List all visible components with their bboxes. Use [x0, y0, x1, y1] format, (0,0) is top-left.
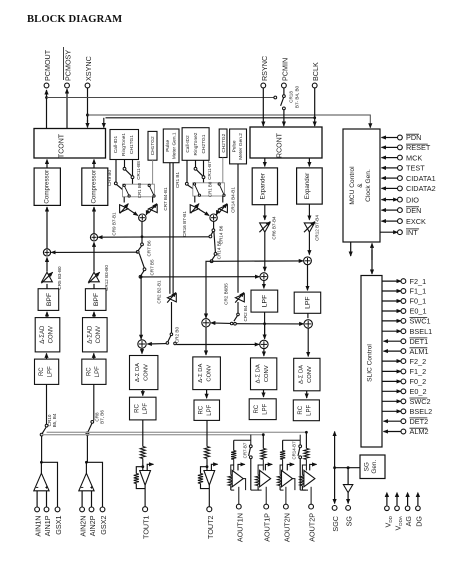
svg-text:AIN2N: AIN2N	[79, 516, 88, 537]
svg-text:CH2TG1: CH2TG1	[201, 134, 207, 153]
wire vga CR5 to S1	[46, 258, 48, 272]
wire CH2TG2 down	[222, 158, 224, 183]
pin MCK	[382, 153, 423, 162]
wire AIN1N	[36, 491, 38, 507]
wire to T1 sum	[147, 343, 166, 345]
resistor TOUT1	[140, 447, 145, 459]
svg-text:B7- B4, B0: B7- B4, B0	[295, 85, 300, 108]
pin CIDATA1	[382, 174, 436, 183]
svg-text:CR14 B5: CR14 B5	[217, 240, 222, 259]
wire ch2 to TOUT2 sum	[206, 261, 212, 318]
svg-text:AIN2P: AIN2P	[88, 515, 97, 536]
svg-text:Δ-Σ DA: Δ-Σ DA	[198, 364, 204, 383]
svg-text:AOUT2N: AOUT2N	[282, 513, 291, 542]
resistor TOUT2	[204, 447, 209, 459]
pin PCMOUT	[43, 49, 52, 88]
switch CR7 B5	[139, 253, 154, 278]
wire LPF1 down	[263, 312, 266, 338]
wire ADC2 to BPF2	[93, 312, 95, 318]
pin DEN	[382, 206, 422, 215]
pin E0_2	[382, 387, 427, 396]
wire pulse1 feed a	[169, 163, 171, 294]
svg-text:AG: AG	[404, 516, 413, 527]
wire RCLPF2 down to switch	[93, 384, 95, 420]
wire resistor to amp TOUT2	[206, 459, 209, 471]
svg-text:Gen.: Gen.	[371, 460, 378, 474]
block DA CONV T1	[130, 356, 158, 390]
pin PCMOSY	[64, 47, 73, 88]
svg-text:MCU Control: MCU Control	[349, 166, 356, 205]
svg-text:XSYNC: XSYNC	[84, 56, 93, 81]
svg-text:CR2 B4: CR2 B4	[243, 305, 248, 322]
block SLIC Control	[361, 276, 382, 448]
svg-text:TOUT1: TOUT1	[142, 516, 151, 539]
block LPF 2	[294, 292, 321, 313]
block RC LPF T1	[130, 397, 157, 420]
svg-text:CR12 B3-B0: CR12 B3-B0	[104, 265, 109, 291]
wire mix to S1	[51, 251, 138, 253]
switch matrix CR1 ch2	[193, 181, 225, 197]
node CR9 B0	[107, 170, 123, 190]
svg-text:CR7 B6: CR7 B6	[147, 240, 152, 257]
svg-text:LPF: LPF	[48, 366, 54, 377]
vga CR2 B2-B1	[157, 280, 177, 304]
wire R1b to DA3	[263, 349, 265, 356]
amp AOUT1P cell	[256, 433, 273, 541]
wire TOUT1 out	[144, 485, 146, 507]
pin F2_1	[382, 277, 426, 286]
svg-text:CH1TG1: CH1TG1	[129, 135, 135, 154]
svg-text:CONV: CONV	[49, 326, 55, 343]
pin EXCK	[382, 217, 427, 226]
wire vga CR9 to M1	[128, 209, 137, 215]
svg-text:CONV: CONV	[96, 326, 102, 343]
svg-text:LPF: LPF	[305, 296, 312, 308]
svg-text:SG: SG	[345, 516, 354, 527]
pin CIDATA2	[382, 184, 436, 193]
wire compressor2 to TCONT	[93, 160, 95, 169]
node CR1 B1	[175, 172, 193, 189]
pin INT	[380, 228, 419, 237]
switch CR11-B7	[194, 161, 212, 183]
svg-text:Call-ID1: Call-ID1	[113, 136, 119, 154]
svg-text:LPF: LPF	[143, 403, 149, 414]
switch CR7 B6	[136, 240, 151, 257]
wire PCMIN to RCONT	[283, 110, 285, 126]
switch matrix CR1 ch1	[123, 182, 156, 198]
wire ch2 sidetone horizontal	[212, 260, 304, 262]
amp TOUT1	[140, 464, 154, 485]
vga CR5	[41, 266, 62, 290]
svg-text:TEST: TEST	[406, 164, 425, 173]
svg-text:Compressor: Compressor	[91, 170, 98, 204]
svg-text:SG: SG	[364, 462, 371, 471]
summing node R1	[260, 273, 268, 281]
vga CR7rx	[148, 187, 168, 213]
svg-text:F2_1: F2_1	[410, 277, 427, 286]
wire LPF1 tap to R2b sum	[265, 323, 304, 325]
summing node M2	[210, 214, 217, 221]
wire DA3 to RCLPF	[263, 390, 265, 397]
pin BCLK	[311, 62, 320, 88]
summing node R2	[304, 257, 312, 265]
svg-text:CONV: CONV	[207, 365, 213, 382]
svg-text:CR2 B2-B1: CR2 B2-B1	[157, 280, 162, 304]
wire TOUT2 out	[208, 485, 210, 507]
wire gray rail lower	[42, 434, 264, 436]
svg-text:TCONT: TCONT	[59, 133, 66, 158]
svg-text:BPF: BPF	[46, 293, 53, 306]
svg-text:CR1 B0: CR1 B0	[137, 182, 142, 198]
svg-text:CH2TG2: CH2TG2	[221, 133, 227, 152]
block CH1TG2	[148, 131, 157, 160]
pin TOUT1	[142, 507, 151, 539]
pin SWC1	[382, 317, 431, 326]
svg-text:CR2 B0: CR2 B0	[175, 327, 180, 344]
summing node T2	[202, 319, 210, 327]
svg-text:B7, B6: B7, B6	[100, 410, 105, 424]
wire S2 to compressor2	[93, 207, 95, 234]
wire RCLPF1 down to switch	[46, 384, 48, 424]
svg-text:SLIC Control: SLIC Control	[367, 344, 374, 382]
pin PCMIN	[280, 58, 289, 88]
amp AOUT2N cell with switch CR14-B7	[278, 435, 309, 542]
amp TOUT2	[204, 464, 218, 485]
svg-text:Meter Gen.2: Meter Gen.2	[238, 133, 244, 160]
wire PCMOSY to TCONT	[66, 89, 68, 129]
switch CR14 B5	[210, 232, 221, 263]
wire MCU aux down	[350, 242, 352, 256]
vga CR12tx	[88, 265, 109, 291]
wire to opamp1	[41, 436, 43, 462]
pin E0_1	[382, 307, 427, 316]
svg-text:F0_1: F0_1	[410, 297, 427, 306]
wire to T2 sum	[211, 322, 231, 325]
vga CR12rx	[304, 204, 320, 241]
amp AOUT2P cell	[300, 431, 317, 542]
svg-text:CIDATA2: CIDATA2	[406, 184, 436, 193]
block RCONT	[250, 127, 322, 158]
svg-text:F2_2: F2_2	[410, 357, 427, 366]
pin TOUT2	[206, 507, 215, 539]
wire SGC	[333, 432, 336, 504]
wire T1 to DA1	[141, 348, 143, 353]
vga CR6	[259, 205, 276, 240]
block DA CONV T2	[193, 357, 221, 390]
svg-text:CR11-B8: CR11-B8	[136, 161, 141, 180]
wire ch1 sidetone horizontal	[141, 276, 260, 278]
svg-text:CR14-B7: CR14-B7	[292, 441, 297, 460]
svg-text:CR14 B4-B1: CR14 B4-B1	[231, 187, 236, 213]
wire ADC1 to BPF1	[46, 312, 48, 318]
wire RCLPF2 to ADC2	[93, 353, 95, 359]
wire vga CR12rx down	[308, 232, 310, 254]
feedback resistor TOUT1	[134, 467, 145, 489]
wire M2 down	[213, 221, 215, 229]
block Expander 2	[297, 168, 323, 204]
wire gray rail upper	[47, 431, 307, 433]
wire T2 to DA2	[205, 327, 207, 355]
wire RCLPF1 to ADC1	[46, 353, 48, 359]
svg-text:CONV: CONV	[144, 364, 150, 381]
wire LPF1 to R1b	[264, 324, 266, 339]
wire XSYNC down	[86, 88, 89, 128]
wire SG to pin	[347, 492, 349, 503]
wire DA1 to RCLPF	[142, 390, 144, 396]
svg-text:CR12 B7-B4: CR12 B7-B4	[315, 215, 320, 241]
svg-text:AIN1N: AIN1N	[34, 516, 43, 537]
block CH2TG2	[219, 129, 227, 158]
pin ALM2	[384, 427, 429, 436]
svg-text:TOUT2: TOUT2	[206, 516, 215, 539]
power pin AG	[404, 492, 413, 527]
svg-text:Δ-Σ DA: Δ-Σ DA	[256, 364, 262, 383]
wire BCLK to RCONT	[314, 88, 316, 126]
block Compressor 1	[34, 168, 60, 205]
svg-text:CONV: CONV	[264, 365, 270, 382]
pin RSYNC	[260, 56, 269, 88]
wire T1 top input	[140, 276, 143, 340]
svg-text:SGC: SGC	[331, 516, 340, 532]
svg-text:CR7 B4-B1: CR7 B4-B1	[163, 187, 168, 211]
block RC LPF A2	[293, 400, 319, 421]
svg-text:F1_2: F1_2	[410, 367, 427, 376]
pin SGC	[331, 506, 340, 532]
svg-text:GSX2: GSX2	[99, 516, 108, 535]
wire vga CR6 down	[264, 232, 266, 271]
svg-text:CR1 B0: CR1 B0	[208, 181, 213, 197]
wire vga CR14rx to M2	[216, 209, 218, 215]
pin XSYNC	[84, 56, 93, 88]
block Expander 1	[252, 168, 277, 205]
svg-text:Pulse: Pulse	[232, 140, 238, 152]
pin SWC2	[382, 397, 431, 406]
svg-text:PCMIN: PCMIN	[280, 58, 289, 81]
pin F2_2	[382, 357, 426, 366]
wire DA4 to RCLPF	[306, 391, 308, 398]
svg-text:CR1 B1: CR1 B1	[175, 172, 180, 189]
wire pulse2 feed	[237, 164, 239, 293]
pin TEST	[382, 164, 426, 173]
pin F0_1	[382, 297, 426, 306]
wire RCONT to expander1	[264, 158, 266, 166]
svg-text:LPF: LPF	[95, 366, 101, 377]
wire AIN2P	[91, 491, 93, 507]
summing node T1	[138, 340, 146, 348]
svg-text:F0_2: F0_2	[410, 377, 427, 386]
svg-text:Δ-Σ DA: Δ-Σ DA	[135, 363, 141, 382]
wire sidetone right long	[176, 343, 259, 345]
svg-text:Pulse: Pulse	[165, 139, 171, 151]
wire GSX1 feedback	[40, 461, 58, 507]
svg-text:CR18: CR18	[289, 91, 294, 103]
pin F0_2	[382, 377, 426, 386]
wire mix to S2	[98, 236, 210, 238]
svg-text:CH1TG2: CH1TG2	[150, 136, 156, 155]
svg-text:BLOCK DIAGRAM: BLOCK DIAGRAM	[27, 14, 122, 25]
svg-text:RingTone1: RingTone1	[121, 133, 127, 156]
wire BPF2 up	[93, 284, 95, 289]
wire AIN1P	[46, 491, 48, 507]
svg-text:RingTone2: RingTone2	[193, 132, 199, 155]
svg-text:RCONT: RCONT	[277, 132, 284, 158]
svg-text:Δ-ΣAD: Δ-ΣAD	[40, 325, 46, 344]
buffer SG	[343, 485, 352, 493]
svg-text:BSEL1: BSEL1	[410, 327, 433, 336]
svg-text:MCK: MCK	[406, 153, 422, 162]
svg-text:&: &	[357, 183, 364, 188]
wire R2 to LPF2	[307, 265, 309, 291]
pin F1_1	[382, 287, 426, 296]
svg-text:F1_1: F1_1	[410, 287, 427, 296]
svg-text:Δ-Σ DA: Δ-Σ DA	[299, 365, 305, 384]
pin GSX2	[99, 507, 108, 535]
wire Call-ID2 outputs	[187, 160, 204, 182]
svg-text:CR7 B5: CR7 B5	[150, 259, 155, 276]
pin DET1	[384, 337, 429, 346]
svg-text:RC: RC	[298, 405, 304, 414]
svg-text:CR6 B7-B4: CR6 B7-B4	[272, 216, 277, 240]
block Delta-Sigma AD CONV 2	[83, 318, 108, 352]
svg-text:RC: RC	[87, 367, 93, 376]
wire RCONT to expander2	[308, 158, 310, 166]
summing node M1	[139, 214, 146, 221]
svg-text:LPF: LPF	[262, 295, 269, 307]
block RC LPF 2	[82, 359, 106, 384]
svg-text:E0_1: E0_1	[410, 307, 427, 316]
svg-text:E0_2: E0_2	[410, 387, 427, 396]
switch CR2 B4	[230, 302, 248, 325]
amp AOUT1N cell with switch CR7-B7	[228, 435, 259, 542]
wire R2b to DA4	[307, 328, 309, 356]
pin AIN2N	[79, 507, 88, 537]
block DA CONV A1	[251, 358, 277, 390]
summing node R1b	[260, 340, 268, 348]
svg-text:LPF: LPF	[263, 403, 269, 414]
wire CH1TG2 down	[152, 160, 154, 184]
pin AIN1N	[34, 507, 43, 537]
svg-text:Meter Gen.1: Meter Gen.1	[172, 132, 178, 159]
block Delta-Sigma AD CONV 1	[35, 318, 60, 352]
wire Call-ID1 outputs	[116, 160, 133, 183]
feedback resistor TOUT2	[198, 467, 209, 489]
wire DA2 to RCLPF	[206, 390, 208, 399]
svg-text:CR11-B7: CR11-B7	[207, 161, 212, 180]
svg-text:AOUT1N: AOUT1N	[235, 513, 244, 542]
svg-text:LPF: LPF	[207, 404, 213, 415]
pin GSX1	[54, 507, 63, 535]
svg-text:CR2 B6B5: CR2 B6B5	[224, 283, 229, 305]
svg-text:CR16 B7-B1: CR16 B7-B1	[182, 211, 187, 237]
wire resistor to amp TOUT1	[141, 459, 144, 471]
block RC LPF 1	[35, 359, 59, 384]
svg-text:CONV: CONV	[307, 366, 313, 383]
pin DIO	[382, 195, 420, 204]
block RC LPF A1	[249, 399, 276, 420]
svg-text:GSX1: GSX1	[54, 516, 63, 535]
svg-text:PCMOUT: PCMOUT	[43, 49, 52, 81]
svg-text:Expander: Expander	[260, 173, 267, 200]
svg-text:RSYNC: RSYNC	[260, 56, 269, 81]
pin DET2	[384, 417, 429, 426]
block MCU Control and Clock Gen	[343, 129, 380, 242]
summing node S1	[43, 249, 50, 256]
block BPF 2	[85, 289, 106, 311]
wire PCMOUT loopback	[47, 96, 277, 99]
switch CR8	[86, 410, 105, 435]
block Call-ID1	[110, 130, 139, 160]
wire S1 to compressor1	[46, 207, 48, 249]
wire to opamp2	[86, 433, 89, 462]
block TCONT	[34, 129, 106, 159]
wire pulse1 feed b	[172, 163, 174, 294]
pin PDN	[382, 133, 422, 142]
wire RCLPF to TOUT1 resistor	[142, 420, 144, 447]
pin AIN2P	[88, 507, 97, 536]
pin BSEL2	[382, 407, 432, 416]
svg-text:CR7-B7: CR7-B7	[242, 442, 247, 458]
wire GSX2 feedback	[85, 461, 103, 507]
power pin VDDA	[393, 492, 403, 531]
block Call-ID2	[182, 128, 209, 161]
wire vga CR16 to M2	[199, 209, 209, 215]
op-amp A1	[34, 473, 49, 491]
wire M1 down	[141, 221, 144, 243]
switch CR2 B0	[166, 302, 179, 345]
power pin DG	[414, 492, 423, 527]
summing node S2	[90, 234, 97, 241]
vga CR16	[182, 196, 199, 237]
wire XSYNC to MCU	[88, 115, 371, 128]
pin RESET	[382, 143, 431, 152]
svg-text:RC: RC	[199, 405, 205, 414]
svg-text:BSEL2: BSEL2	[410, 407, 433, 416]
block Pulse Meter Gen.1	[163, 129, 179, 163]
svg-text:CR9 B7-B1: CR9 B7-B1	[112, 212, 117, 236]
svg-text:DIO: DIO	[406, 195, 419, 204]
svg-text:EXCK: EXCK	[406, 217, 426, 226]
wire SG Gen to SG	[335, 466, 360, 484]
svg-text:RC: RC	[254, 404, 260, 413]
pin F1_2	[382, 367, 426, 376]
svg-text:AOUT1P: AOUT1P	[263, 513, 272, 542]
pin AIN1P	[43, 507, 52, 536]
power pin VDD	[383, 492, 393, 528]
block Pulse Meter Gen.2	[230, 129, 247, 164]
wire RSYNC to RCONT	[262, 88, 264, 126]
vga CR2 B6B5	[224, 283, 245, 305]
wire BPF1 up	[46, 284, 48, 289]
svg-text:CR5 B3-B0: CR5 B3-B0	[57, 266, 62, 290]
vga CR14rx	[219, 187, 236, 214]
switch CR18	[281, 85, 300, 109]
block SG Gen	[360, 455, 385, 479]
wire LPF2 to R2b	[307, 313, 309, 318]
wire MCU to SLIC	[371, 243, 373, 274]
svg-text:DG: DG	[414, 516, 423, 527]
summing node R2b	[304, 320, 312, 328]
svg-text:Compressor: Compressor	[43, 170, 50, 204]
svg-text:Call-ID2: Call-ID2	[185, 135, 191, 153]
svg-text:AIN1P: AIN1P	[43, 515, 52, 536]
wire AIN2N	[81, 491, 83, 507]
svg-text:RC: RC	[39, 367, 45, 376]
svg-text:Expander: Expander	[304, 173, 311, 200]
svg-text:Δ-ΣAD: Δ-ΣAD	[88, 325, 94, 344]
svg-text:CR9 B0: CR9 B0	[107, 170, 112, 187]
svg-text:LPF: LPF	[307, 404, 313, 415]
block Compressor 2	[82, 168, 108, 205]
